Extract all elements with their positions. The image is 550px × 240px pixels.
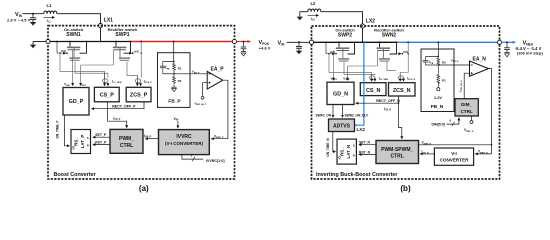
svg-text:ON_TIME_N: ON_TIME_N [326,138,330,157]
svg-text:GD_N: GD_N [333,91,348,97]
capacitor Cout (b) [504,41,510,52]
capacitor Cin (b) [296,42,302,50]
inductor L1 [44,3,57,14]
ground Cin (a) [30,22,36,26]
svg-text:RS_: RS_ [74,137,79,146]
wire SWP1 gate to GD_P (Vgp1) [81,50,114,86]
wire LX2 drop black [362,28,364,42]
node LX2 [360,19,375,28]
svg-text:EA_N: EA_N [473,56,487,62]
block GD_N [327,82,354,104]
bus IVVRC[1:0] [182,154,225,163]
wire SWP2_ON [316,105,334,118]
node FB_P mid [163,73,175,75]
resistor R1 (a) [173,61,182,73]
svg-text:(V-I CONVERTER): (V-I CONVERTER) [165,141,204,146]
wire ON_TIME_N [326,132,336,157]
transistor SWP1 [108,27,142,60]
svg-text:x1/N: x1/N [330,51,335,54]
wire RECT_OFF_P [92,102,145,109]
svg-text:ADTVS: ADTVS [333,124,351,130]
wire power rail black (a) [50,41,130,43]
wire L2 to LX2 [321,12,362,24]
svg-text:x1/N: x1/N [403,51,408,54]
svg-text:GD_P: GD_P [69,99,84,105]
block IVVRC [159,130,210,155]
svg-text:CS_N: CS_N [366,88,380,94]
svg-text:LAT_P: LAT_P [80,135,85,149]
ground Cout (a) [241,52,246,56]
svg-text:CTRL: CTRL [120,143,133,149]
node Vin (a) label [7,12,31,22]
transistor SWN1 [56,27,86,60]
svg-text:L2: L2 [311,1,317,6]
svg-text:PWM-SPWM_: PWM-SPWM_ [381,147,413,153]
wire V_FB_P to EA_P [174,70,207,75]
wire SWP2 gate to GD_N (Vgp2) [333,51,335,81]
block FB_N network [421,49,454,112]
svg-text:PWM_: PWM_ [119,136,134,142]
svg-text:R: R [353,153,355,157]
wire Vneg tap to FB_N [437,42,439,56]
svg-text:Boost Converter: Boost Converter [54,172,97,178]
block GD_P [63,88,89,116]
node rail exit (a) [232,39,236,43]
svg-text:FB_N: FB_N [431,104,444,110]
svg-text:SWN2_ON_DLY: SWN2_ON_DLY [345,114,369,118]
wire LX2 blue monitor line [355,42,365,132]
svg-text:x1/N: x1/N [134,50,139,53]
svg-text:DIM_: DIM_ [461,102,472,107]
svg-text:LX1: LX1 [104,17,113,23]
wire RST_P [93,141,110,145]
svg-text:R2: R2 [178,79,182,83]
node FB_N top [426,56,440,58]
wire SWP2 sense to CS_N [329,54,375,76]
block RS latch LAT_P [71,130,91,154]
transistor SWN2 [374,27,409,61]
block ADTVS [329,119,355,132]
svg-text:ON_TIME_P: ON_TIME_P [56,120,60,139]
svg-text:ZCS_N: ZCS_N [393,88,411,94]
current sense symbol IL2_SEN [370,74,389,81]
svg-text:(a): (a) [139,184,149,193]
block CS_N [360,83,386,96]
wire SWN2_ON_DLY [343,105,369,118]
svg-text:CS_P: CS_P [100,93,114,99]
wire I_ON_P [144,134,159,139]
svg-text:EA_P: EA_P [211,66,225,72]
wire I_CS_N [384,102,402,138]
current sense symbol IL1_SEN [103,73,122,86]
svg-text:IVVRC: IVVRC [176,134,192,140]
junction dots rail (b) [338,41,439,43]
op-amp EA_P [207,66,224,89]
node rail exit (b) [497,40,501,44]
svg-text:SWP2: SWP2 [338,33,352,39]
ground L2 left [297,12,303,21]
wire Vin to L1 [23,13,44,15]
node FB_P top [163,61,175,63]
node V_REF_N output [464,116,474,133]
block CS_P [94,87,119,102]
wire SET_N [359,141,376,145]
svg-text:IVVRC[1:0]: IVVRC[1:0] [206,159,225,163]
svg-text:R: R [87,143,89,147]
svg-text:Inverting Buck-Boost Converter: Inverting Buck-Boost Converter [316,172,398,178]
resistor R2 (a) [173,74,182,87]
junction Vin cap (b) [298,41,300,43]
inductor L2 [300,1,321,12]
wire SWN2 gate to GD_N (Vgn2) [348,51,378,81]
svg-text:ZCS_P: ZCS_P [130,93,148,99]
wire V_REF_EA_P [195,83,208,107]
wire EA_N output [489,69,492,154]
inverting buck-boost dashed border [312,26,500,179]
bus DIM[5:0] [432,118,459,127]
wire power rail red Vpos [131,41,233,43]
ground SWN1 source (outside left) [30,42,46,49]
svg-text:DIM[5:0]: DIM[5:0] [432,122,445,126]
transistor SWP2 [325,27,355,61]
block PWM_CTRL [110,129,143,153]
current IL1 arrow [44,17,55,23]
svg-text:L1: L1 [47,3,53,8]
svg-text:R2: R2 [442,61,446,65]
current sense symbol IZCS_N [398,73,415,82]
wire RST_N [359,151,376,155]
wire LX1 drop [100,28,102,42]
svg-text:+4.6 V: +4.6 V [259,45,271,50]
resistor R1 (b) [437,65,446,88]
svg-text:CTRL: CTRL [460,109,472,114]
wire power rail blue Vneg [397,41,498,43]
wire EA_P output V_ERR_P [211,80,228,139]
svg-text:SWN2: SWN2 [382,33,397,39]
wire RECT_OFF_N [356,96,400,103]
op-amp EA_N [470,56,489,76]
svg-text:SWP1: SWP1 [115,32,129,38]
node Vneg label [515,41,544,56]
wire Vpos tap to FB_P [173,42,175,62]
svg-text:1.2V: 1.2V [434,95,443,100]
svg-text:RECT_OFF_P: RECT_OFF_P [112,104,136,108]
block FB_P network [158,53,191,108]
svg-text:LAT_N: LAT_N [346,145,351,159]
boost converter dashed border [48,26,235,179]
capacitor C_FB (a) [160,61,170,73]
svg-text:LX2: LX2 [357,127,366,132]
capacitor Cout (a) [241,41,247,52]
svg-text:SET_P: SET_P [95,133,106,137]
wire Vin to IVVRC [174,117,179,128]
wire power rail black (b) [314,41,397,43]
wire L1 to LX1 [57,14,100,24]
wire V_ERR_N to V-I converter [475,150,491,155]
svg-text:R1: R1 [178,66,182,70]
svg-text:RST_N: RST_N [359,151,371,155]
svg-text:CONVERTER: CONVERTER [440,158,470,163]
wire SWP1 sense to ZCS_P [127,42,141,78]
svg-text:S: S [353,144,355,148]
resistor R2 (b) [437,57,446,66]
svg-text:SWP2_ON: SWP2_ON [316,114,332,118]
wire SWN2 sense to ZCS_N [387,42,408,74]
wire I_CS_P [108,102,127,128]
current IL2 arrow [308,15,319,21]
junction dots rail (a) [69,41,175,43]
block DIM_CTRL [455,99,478,116]
wire SWN1 gate to GD_P (Vgn1) [72,50,74,86]
wire ON_TIME_P [56,115,70,146]
block ZCS_P [126,87,151,102]
svg-text:2.9 V ~ 4.5 V: 2.9 V ~ 4.5 V [7,17,31,22]
svg-text:RS_: RS_ [340,147,345,156]
wire Vin (b) [287,41,310,43]
wire Vneg output [502,41,516,43]
node 1.2V reference [434,88,443,100]
block RS latch LAT_N [337,139,356,164]
svg-text:V-I: V-I [451,151,457,156]
wire V_ERR_N to PWM-SPWM [419,141,493,146]
svg-text:R1: R1 [442,78,446,82]
wire V_FB_N to EA_N [438,58,469,65]
svg-text:x1/N: x1/N [61,50,66,53]
ground Cin (b) [296,51,302,55]
block ZCS_N [389,83,416,96]
svg-text:S: S [87,136,89,140]
svg-text:(b): (b) [400,184,411,193]
wire SWN1 sense to CS_P [60,53,108,78]
node Vpos label [259,40,271,50]
svg-text:SET_N: SET_N [359,141,370,145]
node rail entry (a) [46,39,50,43]
block PWM-SPWM_CTRL [376,141,419,164]
node rail entry (b) [309,40,313,44]
svg-text:RST_P: RST_P [95,141,107,145]
wire SET_P [93,133,110,137]
svg-text:RECT_OFF_N: RECT_OFF_N [376,99,400,103]
svg-text:LX2: LX2 [366,19,375,25]
capacitor C_FB (b) [423,57,434,66]
wire V_REF_EA_N [458,73,469,98]
ground Cout (b) [504,52,509,56]
wire Vpos output [237,41,251,43]
block V-I CONVERTER [434,148,473,165]
junction Vin cap [32,13,34,15]
capacitor Cin (a) [30,14,36,22]
ground FB_P [171,87,176,91]
node FB_N mid [426,64,440,66]
svg-text:FB_P: FB_P [168,99,181,105]
svg-text:CTRL: CTRL [391,154,404,160]
wire I_ON_N [420,150,434,155]
current sense symbol IZCS_P [135,75,152,85]
svg-text:SWN1: SWN1 [66,32,81,38]
node LX1 [98,17,113,27]
svg-text:(100 mV step): (100 mV step) [517,50,544,55]
